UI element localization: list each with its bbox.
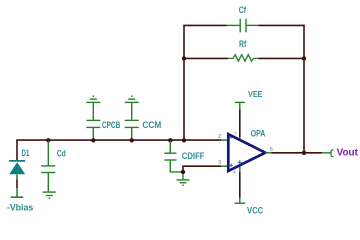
- svg-text:7: 7: [234, 131, 237, 137]
- svg-text:Cf: Cf: [239, 5, 247, 15]
- wire Cf branch left: [183, 24, 226, 26]
- svg-text:Rf: Rf: [239, 39, 247, 49]
- svg-text:OPA: OPA: [251, 128, 266, 138]
- wire output: [271, 152, 322, 154]
- VCC terminal: [235, 198, 246, 204]
- output pin Vout bracket: [330, 150, 333, 157]
- VEE terminal: [235, 102, 245, 109]
- op-amp minus mark: [229, 137, 232, 139]
- node output junction: [302, 151, 306, 155]
- wire Rf branch right: [258, 57, 304, 59]
- svg-text:Cd: Cd: [57, 149, 66, 159]
- svg-text:Vout: Vout: [337, 148, 359, 159]
- ground below Cd: [43, 192, 56, 198]
- op-amp plus mark supply: [238, 160, 242, 164]
- svg-text:VEE: VEE: [248, 89, 263, 99]
- svg-text:CCM: CCM: [142, 120, 161, 130]
- wire output pin green lead: [322, 152, 331, 154]
- wire output green stub: [265, 152, 271, 154]
- ground above CCM (inverted): [125, 96, 139, 102]
- wire feedback left vertical: [183, 25, 185, 140]
- ground at noninverting input: [177, 174, 190, 185]
- node CCM junction: [130, 138, 134, 142]
- node Rf left junction: [182, 56, 186, 60]
- wire bottom power pin: [239, 172, 241, 198]
- svg-text:D1: D1: [22, 148, 30, 158]
- capacitor Cd: [41, 141, 55, 191]
- svg-text:-Vbias: -Vbias: [7, 202, 33, 212]
- svg-text:CDIFF: CDIFF: [182, 151, 205, 161]
- op-amp plus mark input: [229, 164, 233, 168]
- wire pin2 green stub: [221, 139, 227, 141]
- photodiode D1: [9, 161, 25, 197]
- -Vbias supply terminal bar: [11, 196, 23, 198]
- wire Cf branch right: [258, 24, 305, 26]
- node Cd junction: [46, 138, 50, 142]
- capacitor CDIFF: [164, 141, 182, 172]
- wire Rf branch left: [184, 57, 228, 59]
- capacitor CCM: [125, 103, 139, 140]
- capacitor CPCB: [86, 103, 100, 140]
- node CPCB junction: [91, 138, 95, 142]
- wire pin3 green stub: [221, 165, 227, 167]
- svg-text:VCC: VCC: [247, 206, 264, 216]
- capacitor Cf: [227, 19, 259, 33]
- wire main input rail: [16, 139, 221, 141]
- wire top power pin: [239, 109, 241, 137]
- svg-text:CPCB: CPCB: [102, 120, 121, 130]
- node CDIFF junction: [168, 138, 172, 142]
- op-amp U1 triangle: [228, 134, 265, 171]
- wire bottom power green stub: [239, 165, 241, 172]
- node Rf right junction: [302, 56, 306, 60]
- wire top power green tip: [239, 137, 241, 140]
- ground above CPCB (inverted): [86, 96, 100, 102]
- wire noninverting input: [182, 166, 221, 172]
- wire feedback right vertical: [303, 25, 305, 153]
- svg-text:2: 2: [218, 134, 221, 140]
- wire left vertical to photodiode: [16, 140, 18, 161]
- node noninverting input junction: [181, 170, 185, 174]
- node feedback tap: [182, 138, 186, 142]
- svg-text:4: 4: [233, 170, 236, 176]
- svg-text:3: 3: [218, 160, 221, 166]
- resistor Rf: [228, 55, 258, 62]
